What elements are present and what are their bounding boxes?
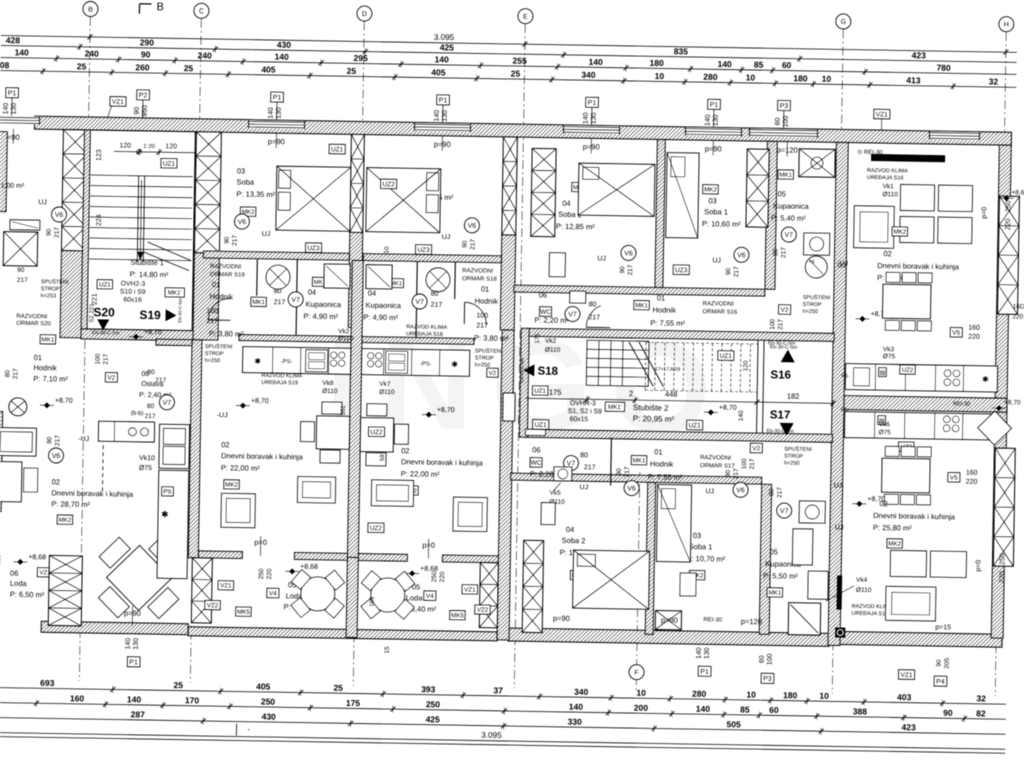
svg-text:Kupaonica: Kupaonica	[366, 301, 402, 311]
svg-text:250: 250	[261, 696, 276, 706]
svg-text:F: F	[634, 670, 638, 677]
svg-text:340: 340	[574, 687, 589, 697]
svg-text:287: 287	[131, 709, 146, 719]
svg-text:90: 90	[17, 267, 25, 274]
svg-text:02: 02	[221, 440, 229, 449]
svg-text:217: 217	[777, 319, 784, 330]
svg-text:V6: V6	[624, 250, 633, 257]
svg-text:90: 90	[725, 470, 732, 478]
svg-text:Vk6: Vk6	[879, 421, 891, 428]
svg-text:217: 217	[274, 299, 286, 306]
svg-text:VZ1: VZ1	[112, 99, 124, 106]
svg-text:REI-30: REI-30	[953, 401, 970, 407]
svg-text:430: 430	[262, 711, 277, 721]
svg-text:60x16: 60x16	[123, 297, 142, 304]
svg-text:VZ1: VZ1	[900, 672, 912, 679]
svg-text:+8,70: +8,70	[251, 398, 269, 405]
svg-text:Dnevni boravak i kuhinja: Dnevni boravak i kuhinja	[221, 451, 304, 461]
svg-text:UZ3: UZ3	[307, 245, 320, 252]
svg-text:295: 295	[354, 53, 369, 63]
svg-text:Loda: Loda	[406, 593, 424, 602]
svg-text:05: 05	[777, 189, 785, 198]
svg-text:Soba 1: Soba 1	[689, 542, 713, 551]
svg-text:Vk7: Vk7	[379, 381, 391, 388]
svg-text:03: 03	[693, 531, 701, 540]
svg-text:VZ1: VZ1	[876, 111, 888, 118]
svg-text:505: 505	[727, 719, 742, 729]
svg-text:P: 13,35 m²: P: 13,35 m²	[236, 189, 275, 199]
svg-text:D: D	[362, 11, 367, 18]
svg-text:UJ: UJ	[834, 482, 843, 489]
svg-text:+8,68: +8,68	[300, 564, 318, 571]
svg-text:REI-30: REI-30	[703, 617, 722, 623]
svg-text:V7: V7	[163, 400, 172, 407]
svg-text:p=120: p=120	[741, 617, 762, 626]
svg-text:E: E	[523, 14, 528, 21]
svg-text:423: 423	[901, 722, 916, 732]
svg-text:10: 10	[819, 691, 829, 701]
svg-text:P: 3,80 m²: P: 3,80 m²	[474, 333, 509, 343]
svg-text:UZ2: UZ2	[370, 525, 383, 532]
svg-text:90: 90	[224, 236, 231, 244]
svg-text:P: 12,85 m²: P: 12,85 m²	[556, 222, 595, 232]
svg-text:P: 2,20 m²: P: 2,20 m²	[534, 315, 569, 325]
svg-text:10: 10	[746, 72, 756, 82]
svg-text:Ø75: Ø75	[883, 353, 896, 360]
svg-text:425: 425	[426, 714, 441, 724]
svg-text:217: 217	[145, 413, 156, 420]
svg-text:02: 02	[52, 477, 60, 486]
svg-text:01: 01	[654, 447, 662, 456]
svg-text:140: 140	[434, 110, 441, 122]
svg-text:UJ: UJ	[580, 484, 589, 491]
svg-text:25: 25	[347, 66, 357, 76]
svg-text:25: 25	[333, 683, 343, 693]
svg-text:UZ1: UZ1	[163, 161, 176, 168]
svg-text:217: 217	[470, 239, 477, 250]
svg-text:140: 140	[569, 702, 584, 712]
svg-text:140: 140	[588, 57, 603, 67]
svg-text:Stubište 2: Stubište 2	[633, 403, 669, 413]
svg-text:205: 205	[944, 657, 951, 668]
svg-text:p=0: p=0	[975, 560, 982, 572]
svg-text:217: 217	[749, 458, 756, 469]
svg-text:100: 100	[95, 353, 102, 364]
svg-text:90: 90	[141, 49, 151, 59]
svg-text:90: 90	[462, 240, 469, 248]
svg-text:Dnevni boravak i kuhinja: Dnevni boravak i kuhinja	[401, 457, 484, 467]
svg-text:SPUŠTENI: SPUŠTENI	[41, 278, 69, 285]
svg-text:✱: ✱	[254, 357, 261, 366]
svg-text:V6: V6	[55, 212, 64, 219]
svg-text:P: 7,10 m²: P: 7,10 m²	[33, 374, 68, 384]
svg-text:220: 220	[0, 554, 2, 565]
svg-text:403: 403	[897, 692, 912, 702]
svg-text:405: 405	[256, 681, 271, 691]
svg-text:S17: S17	[770, 409, 791, 421]
svg-text:PS: PS	[163, 488, 171, 495]
svg-text:S1, S2 i S9: S1, S2 i S9	[568, 408, 602, 416]
svg-text:-: -	[247, 725, 250, 734]
svg-text:01: 01	[212, 280, 220, 289]
svg-text:P: 3,80 m²: P: 3,80 m²	[209, 329, 244, 339]
svg-text:Vk8: Vk8	[322, 380, 334, 387]
svg-text:Ø110: Ø110	[882, 191, 898, 198]
svg-text:120: 120	[119, 142, 131, 149]
svg-text:90: 90	[46, 228, 53, 236]
svg-text:140: 140	[583, 112, 590, 124]
svg-text:P1: P1	[8, 90, 17, 97]
svg-text:140: 140	[268, 107, 275, 119]
svg-text:STROP: STROP	[784, 454, 803, 460]
svg-text:UJ: UJ	[705, 488, 714, 495]
svg-text:V4: V4	[426, 593, 434, 600]
svg-text:03: 03	[237, 166, 245, 175]
svg-text:UZ1: UZ1	[331, 146, 344, 153]
svg-text:UJ: UJ	[262, 231, 271, 238]
svg-text:V2: V2	[752, 445, 760, 452]
svg-text:200: 200	[634, 703, 649, 713]
svg-text:V5: V5	[952, 330, 960, 337]
svg-text:220: 220	[266, 568, 273, 579]
svg-text:P: 25,80 m²: P: 25,80 m²	[873, 523, 912, 533]
svg-text:UJ: UJ	[839, 260, 848, 267]
svg-text:VZ1: VZ1	[464, 586, 476, 593]
svg-text:37: 37	[493, 685, 503, 695]
svg-text:h=250: h=250	[784, 461, 800, 467]
svg-text:P: 5,40 m²: P: 5,40 m²	[771, 213, 806, 223]
svg-text:25: 25	[184, 63, 194, 73]
svg-text:V6: V6	[736, 487, 745, 494]
svg-text:MK1': MK1'	[608, 404, 622, 411]
svg-text:RAZVODNI: RAZVODNI	[700, 455, 731, 462]
svg-text:STROP: STROP	[803, 302, 822, 308]
svg-text:217: 217	[17, 277, 28, 284]
svg-text:+8,70: +8,70	[719, 404, 737, 411]
svg-text:217: 217	[431, 302, 443, 309]
svg-text:175: 175	[346, 698, 361, 708]
svg-text:04: 04	[562, 199, 570, 208]
svg-text:123: 123	[96, 149, 103, 161]
svg-text:10: 10	[383, 246, 390, 254]
svg-text:290: 290	[140, 37, 155, 47]
svg-text:RAZVODNI: RAZVODNI	[462, 268, 493, 275]
svg-text:220: 220	[439, 571, 446, 582]
svg-text:01: 01	[481, 285, 489, 294]
svg-text:P: 20,95 m²: P: 20,95 m²	[633, 414, 675, 424]
svg-text:P1: P1	[439, 97, 448, 104]
svg-text:Eb-30-C-5m: Eb-30-C-5m	[92, 330, 119, 336]
svg-text:V6: V6	[238, 219, 247, 226]
svg-text:UZ2: UZ2	[902, 367, 914, 374]
svg-text:p=90: p=90	[553, 614, 570, 623]
svg-text:B: B	[156, 1, 164, 13]
svg-text:Dnevni boravak i kuhinja: Dnevni boravak i kuhinja	[51, 488, 134, 498]
svg-text:82: 82	[976, 708, 986, 718]
svg-text:✱: ✱	[161, 509, 169, 519]
svg-text:p=0: p=0	[981, 207, 988, 219]
svg-text:V2: V2	[489, 371, 497, 377]
svg-text:02: 02	[883, 249, 891, 258]
svg-text:Ø110: Ø110	[338, 335, 354, 342]
svg-text:140: 140	[738, 410, 745, 421]
svg-text:80: 80	[431, 291, 439, 298]
svg-text:130: 130	[133, 638, 140, 650]
svg-text:25: 25	[173, 680, 183, 690]
svg-text:ORMAR S19: ORMAR S19	[210, 272, 245, 279]
svg-text:UJ: UJ	[835, 524, 844, 531]
svg-text:100: 100	[769, 318, 776, 329]
svg-text:Eb-30-C-5m: Eb-30-C-5m	[766, 428, 793, 434]
svg-text:217: 217	[12, 368, 19, 379]
svg-text:224: 224	[96, 214, 103, 226]
svg-text:P1: P1	[700, 669, 709, 676]
svg-text:P: 10,60 m²: P: 10,60 m²	[702, 219, 741, 229]
svg-text:WC: WC	[531, 460, 542, 467]
svg-text:217: 217	[54, 227, 61, 238]
svg-text:85: 85	[740, 704, 750, 714]
svg-text:P: 4,90 m²: P: 4,90 m²	[303, 312, 338, 322]
svg-text:RAZVODNI: RAZVODNI	[703, 301, 734, 308]
svg-text:h=250: h=250	[475, 362, 491, 368]
svg-text:SPUŠTENI: SPUŠTENI	[784, 446, 812, 453]
svg-text:Ø110: Ø110	[379, 389, 395, 396]
svg-text:Dnevni boravak i kuhinja: Dnevni boravak i kuhinja	[873, 511, 956, 521]
svg-text:Ø110: Ø110	[856, 587, 872, 594]
svg-text:217: 217	[155, 377, 166, 384]
svg-text:P: 7,55 m²: P: 7,55 m²	[650, 318, 685, 328]
svg-text:V6: V6	[52, 453, 61, 460]
svg-text:250: 250	[1005, 200, 1012, 212]
svg-text:250: 250	[258, 568, 265, 579]
svg-text:217: 217	[103, 353, 110, 364]
svg-text:-UJ: -UJ	[217, 412, 228, 419]
svg-text:Eb-30-C-5m: Eb-30-C-5m	[177, 298, 182, 323]
svg-text:90: 90	[616, 468, 623, 476]
svg-text:P: 14,80 m²: P: 14,80 m²	[130, 270, 169, 280]
svg-text:STROP: STROP	[475, 355, 494, 361]
svg-text:80: 80	[589, 301, 597, 308]
svg-text:Ø110: Ø110	[545, 347, 561, 354]
svg-text:80: 80	[772, 248, 779, 256]
svg-text:1,00 m²: 1,00 m²	[0, 183, 25, 190]
svg-text:Hodnik: Hodnik	[652, 305, 676, 314]
svg-text:h=250: h=250	[802, 309, 818, 315]
svg-text:UZ3: UZ3	[417, 247, 430, 254]
svg-text:Soba: Soba	[237, 177, 255, 186]
svg-text:VZ2: VZ2	[207, 602, 219, 609]
svg-text:140: 140	[275, 52, 290, 62]
svg-text:80: 80	[768, 488, 775, 496]
svg-text:ORMAR S16: ORMAR S16	[702, 309, 737, 316]
svg-text:P1: P1	[588, 100, 597, 107]
svg-text:180: 180	[793, 73, 808, 83]
svg-text:220: 220	[999, 571, 1006, 583]
svg-text:2: 2	[629, 389, 633, 398]
svg-text:S20: S20	[93, 305, 115, 319]
svg-text:06: 06	[539, 290, 547, 299]
svg-text:221: 221	[92, 293, 99, 305]
svg-text:ORMAR S20: ORMAR S20	[16, 321, 51, 328]
svg-text:RAZVOD KLIMA: RAZVOD KLIMA	[867, 168, 908, 175]
svg-text:163: 163	[370, 596, 376, 607]
svg-text:693: 693	[40, 678, 55, 688]
svg-text:Soba 2: Soba 2	[562, 536, 586, 545]
svg-text:UJ: UJ	[597, 255, 606, 262]
svg-text:140: 140	[696, 647, 703, 659]
svg-text:VZ1: VZ1	[220, 582, 232, 589]
svg-text:90: 90	[46, 436, 53, 444]
svg-text:Hodnik: Hodnik	[650, 459, 674, 468]
svg-text:250: 250	[999, 553, 1006, 565]
svg-text:UZ1: UZ1	[534, 388, 546, 395]
svg-text:ORMAR S17: ORMAR S17	[700, 463, 735, 470]
svg-text:01: 01	[34, 353, 42, 362]
svg-text:90: 90	[619, 266, 626, 274]
svg-text:428: 428	[6, 35, 21, 45]
svg-text:MK5: MK5	[237, 609, 250, 616]
svg-text:UZ1: UZ1	[688, 422, 701, 429]
svg-text:Ø75: Ø75	[878, 429, 891, 436]
svg-text:15: 15	[384, 646, 391, 654]
svg-text:32: 32	[989, 76, 999, 86]
svg-text:h=250: h=250	[205, 358, 221, 364]
svg-text:MK1: MK1	[768, 590, 781, 597]
svg-text:140: 140	[705, 114, 712, 126]
svg-text:SPUŠTENI: SPUŠTENI	[803, 294, 831, 301]
svg-text:1:20: 1:20	[143, 144, 155, 150]
svg-text:240: 240	[85, 48, 100, 58]
svg-text:P3: P3	[763, 676, 772, 683]
svg-text:217: 217	[624, 466, 631, 477]
svg-text:217: 217	[733, 266, 740, 277]
svg-text:85: 85	[754, 60, 764, 70]
svg-text:217: 217	[588, 314, 600, 321]
svg-text:130: 130	[442, 110, 449, 122]
svg-text:P1: P1	[273, 95, 282, 102]
svg-text:10: 10	[822, 74, 832, 84]
svg-text:100: 100	[783, 116, 790, 128]
svg-text:MK2: MK2	[225, 481, 238, 488]
svg-text:H: H	[1004, 22, 1009, 29]
svg-text:220: 220	[1005, 218, 1012, 230]
svg-text:V6: V6	[468, 223, 477, 230]
svg-text:+8,68: +8,68	[420, 566, 438, 573]
svg-text:Soba 1: Soba 1	[704, 207, 728, 216]
svg-text:130: 130	[704, 647, 711, 659]
svg-text:60: 60	[775, 117, 782, 125]
svg-text:UJ: UJ	[38, 199, 47, 206]
svg-text:S18: S18	[537, 365, 558, 377]
svg-text:P: 7,55 m²: P: 7,55 m²	[648, 472, 683, 482]
svg-text:V7: V7	[291, 297, 300, 304]
svg-text:04: 04	[368, 289, 376, 298]
svg-text:140: 140	[696, 704, 711, 714]
svg-text:120: 120	[165, 143, 177, 150]
svg-text:V7: V7	[784, 232, 793, 239]
svg-text:MK5: MK5	[451, 612, 464, 619]
svg-text:Stubište 1: Stubište 1	[131, 258, 165, 268]
svg-text:100: 100	[476, 312, 488, 319]
svg-text:p=15: p=15	[935, 624, 951, 631]
svg-text:60: 60	[759, 655, 766, 663]
svg-text:220: 220	[966, 479, 978, 486]
svg-text:405: 405	[261, 64, 276, 74]
svg-text:405: 405	[431, 67, 446, 77]
svg-text:780: 780	[936, 63, 951, 73]
svg-text:VZ2: VZ2	[477, 607, 489, 614]
svg-text:Dnevni boravak i kuhinja: Dnevni boravak i kuhinja	[877, 261, 960, 271]
svg-text:08: 08	[0, 60, 10, 70]
svg-text:V6: V6	[627, 485, 636, 492]
svg-text:01: 01	[657, 293, 665, 302]
svg-text:P3: P3	[780, 103, 789, 110]
svg-text:100: 100	[206, 308, 218, 315]
svg-text:140: 140	[3, 103, 10, 115]
svg-text:140: 140	[15, 47, 30, 57]
svg-text:P: 4,90 m²: P: 4,90 m²	[363, 313, 398, 323]
svg-text:MK2: MK2	[893, 229, 906, 236]
svg-text:FE: FE	[809, 259, 815, 264]
svg-text:06: 06	[10, 569, 18, 578]
svg-text:10: 10	[636, 688, 646, 698]
svg-text:OVH2-3: OVH2-3	[121, 281, 146, 288]
svg-text:UZ2: UZ2	[370, 429, 383, 436]
svg-text:STROP: STROP	[41, 286, 60, 292]
svg-text:+8,70: +8,70	[55, 397, 73, 404]
svg-text:✱: ✱	[982, 375, 989, 384]
svg-text:280: 280	[703, 72, 718, 82]
svg-text:MK1: MK1	[252, 299, 265, 306]
svg-text:17×17,6/29: 17×17,6/29	[655, 366, 680, 372]
svg-text:P: 5,50 m²: P: 5,50 m²	[763, 571, 798, 581]
svg-text:32: 32	[976, 693, 986, 703]
svg-text:Loda: Loda	[10, 579, 28, 588]
svg-text:160: 160	[968, 325, 980, 332]
svg-text:V5: V5	[950, 475, 958, 482]
svg-text:P1: P1	[129, 659, 138, 666]
svg-text:V4: V4	[269, 590, 277, 597]
svg-text:UJ: UJ	[442, 234, 451, 241]
svg-text:SPUŠTENI: SPUŠTENI	[205, 343, 233, 350]
svg-text:SPUŠTENI: SPUŠTENI	[475, 347, 503, 354]
svg-text:80: 80	[580, 452, 588, 459]
svg-text:413: 413	[906, 75, 921, 85]
svg-text:UZ1: UZ1	[720, 353, 733, 360]
svg-text:P: 6,50 m²: P: 6,50 m²	[10, 590, 45, 600]
svg-text:-UJ: -UJ	[78, 436, 89, 443]
svg-text:160: 160	[966, 470, 978, 477]
svg-text:V2: V2	[107, 375, 115, 382]
svg-text:Vk4: Vk4	[856, 577, 868, 584]
svg-text:170: 170	[185, 695, 200, 705]
svg-text:Kupaonica: Kupaonica	[306, 300, 342, 310]
svg-text:140: 140	[127, 694, 142, 704]
svg-text:P2: P2	[139, 92, 148, 99]
svg-text:RAZVODNI: RAZVODNI	[210, 264, 241, 271]
svg-text:P: 22,00 m²: P: 22,00 m²	[221, 463, 260, 473]
svg-text:05: 05	[769, 547, 777, 556]
svg-text:02: 02	[879, 499, 887, 508]
svg-text:MK1: MK1	[635, 302, 648, 309]
svg-text:950: 950	[142, 105, 149, 117]
svg-text:F6-: F6-	[841, 374, 850, 380]
svg-text:340: 340	[581, 70, 596, 80]
svg-text:+8,70: +8,70	[1004, 399, 1021, 406]
svg-text:UREĐAJA S16: UREĐAJA S16	[867, 175, 904, 182]
svg-text:Vk10: Vk10	[139, 455, 155, 462]
svg-text:90: 90	[725, 268, 732, 276]
